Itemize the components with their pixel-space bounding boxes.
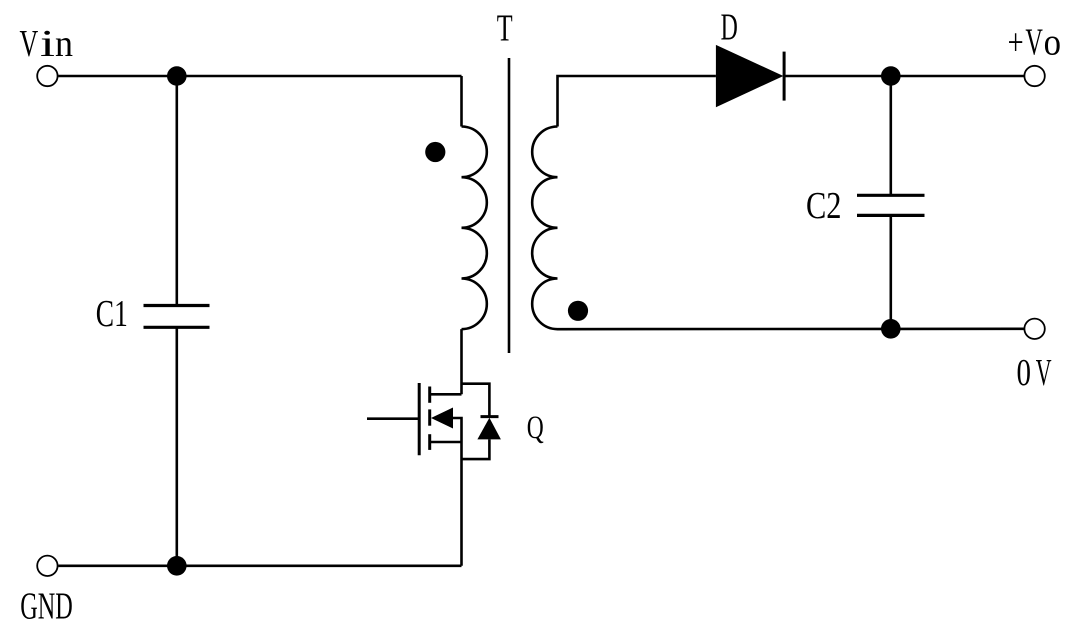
wire body diode top branch [462,384,490,417]
transistor Q gate lead [367,417,418,420]
svg-text:V: V [20,23,39,65]
wire C1 bottom lead [176,327,179,566]
svg-text:C2: C2 [806,185,842,227]
terminal +Vo [1024,66,1044,86]
wire diode cathode to +Vo [784,75,1024,78]
wire C1 top lead [176,76,179,306]
wire top-left rail [58,75,461,78]
wire C2 bottom lead [889,215,892,328]
wire secondary top lead [558,76,716,127]
terminal Vin [37,66,57,86]
primary phase dot [425,142,445,162]
node output junction top [881,66,901,86]
svg-text:D: D [721,7,738,49]
svg-text:C1: C1 [96,293,128,335]
svg-text:i: i [40,23,55,65]
svg-text:GND: GND [20,586,73,628]
wire bottom-right rail [558,327,1025,330]
svg-text:V: V [1036,352,1052,394]
wire body connection [453,418,462,442]
terminal 0V [1024,319,1044,339]
transistor Q channel dashes [428,387,431,450]
secondary phase dot [568,301,588,321]
transistor Q drain lead [430,393,462,396]
node output junction bottom [881,319,901,339]
svg-text:T: T [497,7,513,49]
wire bottom-left rail [58,564,461,567]
svg-text:0: 0 [1017,352,1032,394]
svg-text:V: V [1025,22,1043,64]
label 0V [1017,352,1052,394]
body diode of Q [477,417,501,440]
node input junction bottom [167,556,187,576]
capacitor C1 [144,306,210,328]
transformer T primary winding [462,127,487,330]
wire C2 top lead [889,76,892,195]
wire source down to bottom rail [460,442,463,566]
wire primary top lead [460,76,463,127]
transistor Q gate bar [418,383,421,455]
svg-text:+: + [1008,22,1024,64]
svg-text:o: o [1044,22,1061,64]
wire primary bottom to drain [460,329,463,394]
svg-text:n: n [55,23,73,65]
diode D [716,45,784,107]
label Vin [20,23,74,65]
label +Vo [1008,22,1061,64]
transformer T core [508,58,511,353]
svg-text:Q: Q [527,410,544,446]
wire body diode bottom branch [462,439,490,459]
transformer T secondary winding [532,127,557,330]
transistor Q body arrow [431,408,453,429]
transistor Q source lead [430,441,462,444]
node input junction top [167,66,187,86]
capacitor C2 [857,195,925,215]
terminal GND [37,556,57,576]
